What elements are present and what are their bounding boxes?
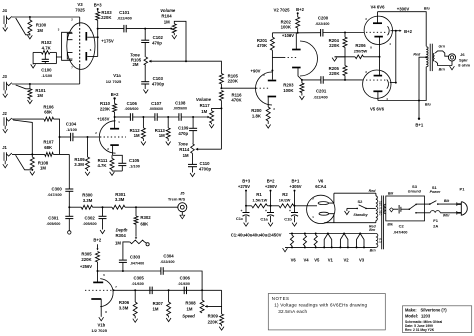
svg-text:470p: 470p	[152, 41, 162, 46]
svg-text:3.3M: 3.3M	[119, 305, 129, 310]
ground below C1a	[268, 223, 273, 227]
svg-text:68K: 68K	[140, 221, 149, 226]
svg-text:Brn: Brn	[439, 68, 446, 72]
resistor R301	[93, 192, 137, 209]
heater V6	[290, 233, 296, 263]
wire junction to V5 grid	[345, 79, 363, 81]
ground below R200	[266, 125, 271, 129]
tube V3 plate 2	[86, 52, 97, 61]
resistor R106	[43, 104, 54, 121]
node J1 junction	[31, 153, 33, 155]
svg-text:.022/400: .022/400	[313, 96, 327, 100]
svg-text:.022/400: .022/400	[117, 17, 132, 21]
ground below R101	[28, 100, 33, 104]
tube V3 envelope	[67, 23, 95, 70]
speaker jack J6	[448, 54, 455, 66]
svg-text:+275V: +275V	[238, 184, 250, 189]
tube V4 grid dashes	[366, 31, 387, 33]
wire plate to C101	[98, 28, 124, 30]
resistor R113	[155, 117, 170, 141]
svg-text:1/2 7025: 1/2 7025	[106, 79, 122, 84]
svg-text:J1: J1	[2, 145, 7, 150]
svg-text:1K/2W: 1K/2W	[279, 198, 291, 202]
node tone tap junction	[144, 28, 146, 30]
svg-text:C104: C104	[66, 121, 77, 126]
ground below C110	[190, 173, 195, 177]
switch S1 power	[429, 185, 457, 205]
wire cathode to C105	[113, 155, 123, 163]
svg-text:1M: 1M	[37, 28, 43, 33]
tube V6 pin numbers	[312, 197, 314, 219]
svg-text:32.5mA each: 32.5mA each	[278, 309, 307, 314]
transformer T2 heater winding	[376, 234, 378, 248]
notes text	[272, 296, 368, 314]
wire secondary top to J6	[435, 51, 448, 56]
svg-text:+175V: +175V	[101, 39, 114, 44]
svg-text:220K: 220K	[228, 79, 239, 84]
svg-text:Ground: Ground	[408, 189, 422, 193]
wire OT primary bottom	[378, 67, 426, 101]
wire J2 tip to R106	[12, 118, 44, 120]
svg-text:V5: V5	[314, 257, 320, 262]
wire J1 tip to R107	[12, 153, 45, 155]
plus marks C1	[241, 209, 292, 213]
ground below J5	[180, 215, 185, 219]
tube V1a label	[106, 73, 122, 84]
svg-text:V2 7025: V2 7025	[273, 7, 290, 12]
capacitor C101	[117, 10, 132, 32]
resistor R111	[97, 155, 114, 171]
svg-text:+256V: +256V	[80, 264, 92, 269]
wire junction to C104	[60, 136, 71, 138]
power node B+2 at R110	[111, 92, 119, 104]
wire C107 to C108	[157, 116, 179, 118]
resistor R305	[81, 252, 99, 283]
svg-text:+: +	[289, 209, 291, 213]
svg-text:Model:: Model:	[405, 314, 418, 319]
svg-text:C106: C106	[127, 101, 138, 106]
tone pot R105	[130, 43, 186, 68]
svg-text:.1/100: .1/100	[41, 73, 52, 78]
tube V5 envelope	[363, 70, 391, 98]
svg-text:C303: C303	[130, 254, 141, 259]
svg-text:P1: P1	[460, 187, 466, 192]
wire C306 to R309	[221, 290, 223, 314]
label C2 value	[393, 224, 407, 235]
svg-text:B+1: B+1	[291, 179, 299, 184]
resistor R302	[134, 207, 151, 231]
tube V2a envelope	[256, 72, 273, 105]
tube V6 cathode wire	[309, 205, 317, 207]
svg-text:V4: V4	[303, 257, 309, 262]
svg-text:C107: C107	[151, 101, 162, 106]
heater V1	[323, 233, 333, 263]
capacitor C1a	[260, 206, 274, 222]
svg-text:220K: 220K	[329, 43, 340, 48]
tube V6 envelope	[307, 195, 335, 223]
svg-text:C1:40u40u40u40u@450V: C1:40u40u40u40u@450V	[231, 233, 282, 238]
wire AC neutral	[416, 212, 430, 214]
node R307 junction	[168, 289, 170, 291]
node R100 top junction	[29, 16, 31, 18]
svg-text:1M: 1M	[159, 133, 165, 138]
capacitor C303	[119, 254, 144, 271]
node R117 top junction	[220, 107, 222, 109]
terminal B+2 supply	[265, 179, 277, 206]
tube V1a cathode	[110, 145, 119, 155]
svg-text:470p: 470p	[178, 131, 188, 136]
svg-text:J5: J5	[180, 190, 185, 195]
svg-text:100K: 100K	[283, 88, 294, 93]
node B+3 rail junction	[245, 205, 247, 207]
svg-text:1/2 7025: 1/2 7025	[91, 328, 107, 333]
svg-text:C103: C103	[153, 76, 164, 81]
title text	[405, 308, 447, 333]
capacitor C103	[141, 65, 164, 89]
svg-text:.005/600: .005/600	[83, 222, 97, 226]
svg-text:6CA4: 6CA4	[315, 184, 327, 189]
capacitor C107	[149, 101, 163, 121]
wire HV top	[334, 192, 376, 194]
svg-text:1M: 1M	[187, 306, 193, 311]
tube V5 cathode	[374, 57, 383, 76]
node V5 screen junction	[395, 82, 397, 84]
svg-text:Brn: Brn	[370, 248, 376, 252]
wire OT center tap to B+1	[419, 57, 426, 118]
ground below S2	[345, 211, 350, 215]
wire C104 to V1a grid	[73, 136, 100, 138]
transformer T2 primary winding	[384, 204, 386, 214]
svg-text:1.8K: 1.8K	[252, 113, 262, 118]
resistor R101	[28, 84, 46, 100]
capacitor C201	[313, 76, 327, 99]
svg-text:Make:: Make:	[405, 308, 417, 313]
svg-text:R117: R117	[200, 103, 211, 108]
resistor R309	[208, 314, 224, 327]
node V2a plate junction	[271, 70, 273, 72]
node tone chain junction	[192, 116, 194, 118]
depth pot R304	[115, 228, 149, 260]
tube V3 label	[75, 2, 85, 12]
ground below R306	[133, 319, 138, 323]
volume pot R104	[160, 8, 186, 61]
heater bus bottom	[285, 246, 376, 248]
svg-text:V5 6V6: V5 6V6	[370, 106, 385, 111]
svg-text:R1: R1	[256, 192, 262, 197]
svg-text:250/5W: 250/5W	[354, 49, 368, 54]
svg-text:2A: 2A	[433, 223, 438, 228]
tone pot R114	[178, 131, 221, 158]
node R101 top junction	[29, 83, 31, 85]
node B+2 rail junction	[270, 205, 272, 207]
resistor R205	[329, 66, 347, 80]
capacitor C105	[112, 158, 140, 171]
svg-text:Grn: Grn	[439, 44, 446, 48]
svg-text:R309: R309	[208, 314, 219, 319]
resistor R306	[119, 290, 137, 318]
resistor R300	[69, 193, 93, 210]
ground at C100	[31, 64, 36, 68]
heater V5	[314, 233, 320, 263]
capacitor C301	[46, 207, 73, 234]
wire HV bottom	[324, 222, 376, 224]
label Red Brn HV bottom	[369, 224, 376, 232]
ground below R112	[141, 142, 146, 146]
svg-text:Blu: Blu	[425, 102, 432, 106]
node speed junction	[201, 289, 203, 291]
svg-text:68K: 68K	[44, 145, 53, 150]
node R109 top junction	[87, 136, 89, 138]
svg-text:3.3M: 3.3M	[74, 162, 84, 167]
resistor R100	[28, 17, 47, 35]
svg-text:3.3M: 3.3M	[115, 197, 125, 202]
tube V6 label	[315, 179, 327, 189]
capacitor C306	[178, 275, 191, 294]
svg-text:+163V: +163V	[97, 116, 109, 121]
wire osc grid row	[114, 289, 222, 291]
tube V2a cathode	[268, 97, 277, 108]
input jack J3	[2, 74, 12, 97]
svg-text:Brn: Brn	[369, 228, 375, 232]
svg-text:Red: Red	[413, 53, 421, 57]
title box	[403, 306, 472, 333]
svg-text:J4: J4	[2, 8, 7, 13]
resistor R203	[283, 80, 304, 96]
svg-text:1.5K/1W: 1.5K/1W	[252, 198, 267, 202]
resistor R108	[30, 154, 48, 170]
ground below J6	[450, 66, 455, 70]
svg-text:220K: 220K	[101, 15, 112, 20]
svg-text:B+2: B+2	[404, 29, 412, 34]
svg-text:68K: 68K	[44, 109, 53, 114]
tube V1a plate	[110, 117, 119, 129]
svg-text:C2: C2	[399, 224, 405, 229]
terminal B+1 supply	[289, 179, 301, 206]
node trem jack junction	[135, 206, 137, 208]
wire C200 to V4 grid	[323, 32, 365, 34]
tube V3 grid line	[79, 17, 81, 84]
heater V2	[339, 233, 349, 263]
node R204 junction	[344, 32, 346, 34]
transformer T2 core	[381, 196, 383, 250]
svg-text:1M: 1M	[115, 240, 121, 245]
label F1 2A	[433, 218, 439, 229]
capacitor C110	[188, 153, 211, 172]
svg-text:Volume: Volume	[160, 8, 176, 13]
tube V2 pin numbers	[263, 34, 304, 111]
ground stub between R204 R205	[332, 57, 345, 61]
node R108 bottom junction	[31, 169, 33, 171]
plug P1	[457, 187, 468, 216]
capacitor C200	[315, 15, 329, 36]
tube V3 cathode structure	[62, 32, 73, 60]
wire J4 tip to V3 grid	[12, 16, 80, 18]
resistor R107	[43, 140, 54, 157]
svg-text:Power: Power	[430, 190, 441, 194]
svg-text:B+2: B+2	[93, 238, 101, 243]
resistor R105 220K	[219, 73, 238, 88]
resistor R102	[33, 40, 56, 54]
svg-text:+290V: +290V	[265, 184, 277, 189]
svg-text:R102: R102	[41, 40, 52, 45]
tube V1b cathode	[91, 299, 101, 317]
wire J3 tip to V3 grid2	[12, 83, 80, 85]
ground below R203	[300, 96, 305, 100]
ground below C103	[143, 90, 148, 94]
terminal B+1	[415, 118, 423, 128]
wire V4 plate to OT primary	[378, 12, 427, 47]
ground below R109	[85, 172, 90, 176]
svg-text:.005/600: .005/600	[46, 222, 60, 226]
tube V4 plate	[373, 12, 382, 24]
svg-text:+: +	[241, 209, 243, 213]
svg-text:Red: Red	[369, 189, 377, 193]
wire rail to V6	[294, 205, 309, 207]
tube V4 V5 pin numbers	[365, 17, 391, 101]
resistor R204	[329, 33, 347, 66]
ground below R111	[110, 172, 115, 176]
svg-text:+305V: +305V	[289, 184, 301, 189]
svg-text:C1b: C1b	[284, 217, 292, 222]
tube V2b grid dashes	[284, 56, 297, 58]
svg-text:6.3: 6.3	[378, 238, 382, 243]
svg-text:R306: R306	[119, 300, 130, 305]
svg-text:3.3M: 3.3M	[83, 198, 93, 203]
capacitor C305	[132, 275, 153, 294]
svg-text:.047/400: .047/400	[130, 261, 144, 265]
svg-text:C1c: C1c	[236, 216, 244, 221]
svg-text:Standby: Standby	[353, 213, 368, 217]
wire cathode V3	[56, 56, 61, 58]
wire to J5	[136, 206, 178, 208]
capacitor C300	[47, 154, 73, 207]
notes box	[268, 294, 385, 330]
wire V1a plate to C106	[115, 116, 131, 118]
switch S3 lever	[409, 204, 417, 214]
svg-text:C101: C101	[119, 10, 130, 15]
jack J1 shorting wire	[16, 155, 31, 170]
ground below R100	[28, 35, 33, 39]
power node B+3 at R103	[94, 2, 102, 11]
capacitor C1c	[236, 206, 250, 222]
svg-text:4.7K: 4.7K	[42, 46, 52, 51]
svg-text:V3: V3	[359, 257, 365, 262]
svg-text:C304: C304	[163, 254, 174, 259]
wire +100V to R201	[272, 32, 297, 34]
svg-text:C301: C301	[48, 216, 59, 221]
svg-text:NOTES: NOTES	[272, 296, 290, 301]
tube V5 grid dashes	[366, 79, 386, 81]
tube V4 screen	[388, 26, 390, 35]
svg-text:.1/100: .1/100	[66, 127, 77, 132]
svg-text:Rev: 2 31 May Y2K: Rev: 2 31 May Y2K	[405, 328, 435, 332]
tube V3 pin numbers	[58, 18, 92, 70]
wire cathode to C201	[302, 79, 321, 81]
svg-text:7025: 7025	[75, 7, 85, 12]
svg-text:220K: 220K	[208, 320, 219, 325]
svg-text:R305: R305	[81, 252, 92, 257]
wire C201 to V5 grid junction	[323, 79, 345, 81]
svg-text:+100V: +100V	[282, 33, 294, 38]
resistor R110	[100, 101, 117, 117]
svg-text:.01/600: .01/600	[132, 282, 144, 286]
input jack J1	[2, 145, 12, 168]
node +100V junction	[297, 32, 299, 34]
tube V2b plate	[292, 33, 301, 50]
heater V4	[303, 233, 309, 263]
svg-text:+90V: +90V	[251, 68, 261, 73]
tube V2b cathode	[292, 68, 302, 80]
node C303 junction	[122, 270, 124, 272]
tube V6 plate top	[318, 193, 334, 204]
wire C304 to speed	[163, 271, 202, 290]
capacitor C104	[66, 121, 77, 141]
tube V2b envelope	[300, 41, 318, 76]
svg-text:.01/600: .01/600	[178, 282, 190, 286]
node volume/tone mix junction	[185, 60, 187, 62]
capacitor C109	[178, 117, 197, 136]
ground below C1b	[292, 223, 297, 227]
svg-text:F1: F1	[433, 218, 438, 223]
svg-text:R104: R104	[161, 13, 172, 18]
node C104 in junction	[59, 136, 61, 138]
resistor R1	[246, 192, 268, 208]
svg-text:1) Voltage readings with 6V6EH: 1) Voltage readings with 6V6EHs drawing	[274, 303, 367, 308]
capacitor C2 in box	[390, 205, 410, 214]
svg-text:S2: S2	[357, 199, 363, 204]
resistor R103	[96, 10, 113, 20]
svg-text:V6: V6	[318, 179, 324, 184]
svg-text:V6: V6	[291, 257, 297, 262]
node C300 bottom junction	[68, 206, 70, 208]
tube V1a grid dashes	[100, 136, 126, 138]
svg-text:.005/600: .005/600	[125, 107, 139, 111]
capacitor C1b	[284, 206, 298, 222]
svg-text:+300V: +300V	[397, 6, 410, 11]
node V4 screen junction	[395, 30, 397, 32]
svg-text:C109: C109	[178, 126, 189, 131]
resistor R307	[153, 290, 171, 317]
jack J4 shorting contact wire	[16, 18, 30, 35]
resistor R201	[257, 33, 275, 80]
svg-text:1M: 1M	[37, 93, 43, 98]
svg-text:R307: R307	[153, 301, 164, 306]
svg-text:1M: 1M	[40, 166, 46, 171]
svg-text:1M: 1M	[164, 20, 170, 25]
tube V1b grid dashes	[85, 289, 112, 291]
svg-text:C200: C200	[318, 15, 329, 20]
jack J3 shorting contact wire	[16, 85, 30, 89]
svg-text:Blu: Blu	[424, 6, 431, 10]
svg-text:C306: C306	[180, 275, 191, 280]
svg-text:.005/600: .005/600	[173, 107, 187, 111]
svg-text:B+3: B+3	[94, 2, 102, 7]
svg-text:220K: 220K	[329, 71, 340, 76]
svg-text:B+2: B+2	[296, 7, 304, 12]
capacitor C100	[33, 52, 56, 78]
ground below C1c	[244, 223, 249, 227]
capacitor C106	[125, 101, 139, 121]
label B+2 arrow	[396, 29, 413, 34]
tube V6 plate bottom	[319, 212, 334, 223]
wire R106 to C104 junction	[54, 119, 60, 137]
wire trem pickup	[53, 153, 69, 155]
svg-text:C1a: C1a	[260, 217, 268, 222]
svg-text:.047/400: .047/400	[393, 231, 407, 235]
transformer T1 core	[429, 44, 431, 71]
svg-text:220K: 220K	[100, 106, 111, 111]
ground below C302	[100, 230, 105, 234]
